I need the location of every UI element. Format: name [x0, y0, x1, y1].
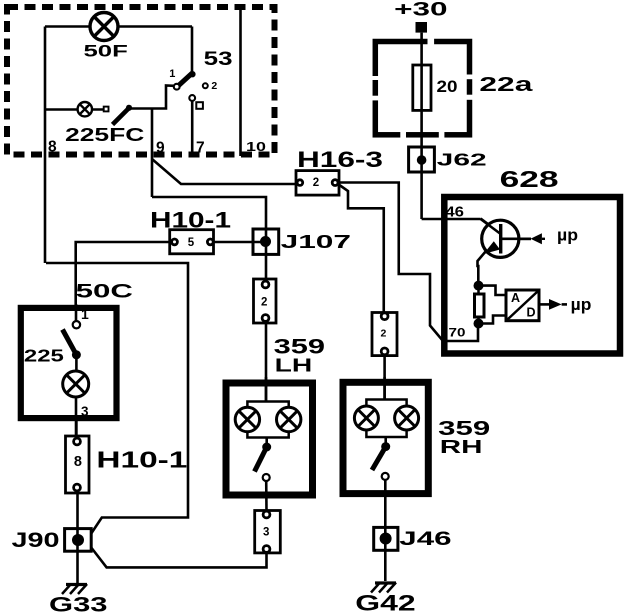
arrow to microprocessor (base) — [531, 233, 542, 244]
wire 359LH switch to conn3 — [265, 481, 268, 512]
connector pin3 (LH) box — [255, 511, 281, 553]
svg-text:3: 3 — [263, 527, 269, 539]
wire conn2RH to 359RH — [383, 356, 386, 400]
svg-text:225FC: 225FC — [65, 125, 144, 145]
wire 359LH entry — [265, 377, 268, 402]
transistor emitter arrow — [484, 241, 501, 254]
svg-text:9: 9 — [156, 140, 165, 157]
ground G42 — [371, 583, 396, 593]
unit box 628 — [444, 197, 620, 354]
lamp pair 359RH — [366, 400, 406, 438]
svg-text:3: 3 — [81, 404, 89, 419]
svg-text:J107: J107 — [281, 231, 351, 252]
wire 359RH switch through J46 to ground G42 — [384, 480, 387, 581]
contact 2 of 53 — [203, 83, 208, 88]
lamp 225FC — [78, 102, 92, 116]
svg-text:628: 628 — [500, 166, 559, 192]
contact 225FC — [104, 107, 109, 112]
wire transistor collector in — [481, 219, 500, 234]
fuse 20A symbol — [413, 65, 431, 110]
svg-text:µp: µp — [571, 295, 592, 314]
svg-text:µp: µp — [557, 226, 578, 245]
svg-text:50F: 50F — [84, 43, 128, 61]
lamp 50C — [63, 371, 89, 397]
wire 225FC row — [45, 108, 104, 111]
switch unit 50C box — [21, 308, 117, 418]
svg-text:G33: G33 — [49, 592, 108, 616]
svg-text:2: 2 — [313, 177, 319, 189]
wire transistor base out — [501, 238, 531, 241]
wire pin7 — [191, 101, 194, 157]
svg-text:D: D — [527, 306, 536, 320]
contact 7 of 53 — [189, 95, 195, 101]
switch 359LH — [265, 438, 268, 448]
wire pin9 to H16-3 — [152, 159, 296, 184]
lamp pair 359LH — [247, 402, 288, 438]
wire conn3 to J90 — [91, 548, 266, 568]
wire 53 switch feed — [191, 27, 194, 75]
switch 53 blade — [178, 73, 193, 87]
wire H10-1(8) through J90 to ground G33 — [76, 491, 79, 583]
svg-text:22a: 22a — [479, 73, 533, 96]
svg-text:53: 53 — [204, 49, 233, 70]
wire switch 225FC to 53 contact — [129, 86, 174, 109]
wire H10-1 to J107 — [213, 241, 266, 244]
svg-text:H10-1: H10-1 — [150, 208, 231, 233]
connector pin2 (RH) box — [372, 313, 397, 356]
connector pin2 (LH) box — [254, 279, 277, 323]
wire 50C switch to lamp — [75, 355, 78, 371]
contact 1 of 53 — [174, 84, 180, 90]
svg-text:20: 20 — [437, 78, 458, 96]
svg-text:G42: G42 — [355, 591, 415, 616]
resistor in 628 — [475, 294, 485, 317]
wire 50F row — [45, 25, 192, 28]
wire left vertical bus — [44, 27, 47, 264]
svg-text:5: 5 — [188, 237, 195, 249]
svg-text:8: 8 — [48, 139, 57, 156]
svg-text:1: 1 — [169, 68, 175, 80]
svg-text:225: 225 — [24, 345, 64, 365]
svg-text:J90: J90 — [12, 529, 60, 552]
wire conn2 to 359LH — [265, 322, 268, 402]
stub contact of 53 — [196, 102, 203, 109]
junction J46 box — [374, 527, 398, 550]
svg-text:7: 7 — [196, 140, 205, 157]
svg-text:+30: +30 — [394, 0, 447, 21]
svg-text:H10-1: H10-1 — [96, 447, 187, 473]
wire H16-3 to 628 pin70 — [338, 183, 478, 342]
svg-text:J46: J46 — [399, 528, 451, 550]
wire pin9 vertical — [151, 110, 154, 198]
wire H10-1 to 50C — [76, 242, 170, 305]
wire 50C lamp down to H10-1 — [75, 397, 78, 442]
junction J62 box — [409, 147, 435, 172]
switch blade 225FC — [113, 108, 130, 125]
svg-text:A: A — [511, 291, 520, 305]
svg-text:46: 46 — [445, 204, 464, 220]
transistor in 628 — [481, 219, 531, 257]
dashed unit box top-left — [7, 7, 275, 155]
switch 50C contact 1 — [73, 321, 80, 328]
battery feed +30 square — [416, 22, 428, 33]
svg-text:RH: RH — [440, 437, 483, 457]
wire 359RH entry — [383, 377, 386, 400]
wire J90 long loop to left bus — [46, 263, 188, 534]
lamp unit 359 RH box — [343, 382, 428, 493]
switch 50C blade — [63, 330, 77, 355]
svg-text:8: 8 — [74, 454, 82, 470]
svg-text:LH: LH — [275, 355, 313, 376]
junction J90 box — [65, 529, 92, 552]
connector H10-1 pin5 box — [170, 230, 214, 254]
lamp 50F — [90, 13, 118, 41]
svg-text:J62: J62 — [437, 149, 487, 169]
wire resistor top to A/D — [479, 286, 507, 295]
ground G33 — [62, 584, 87, 594]
wire pin9 through J107 to conn2 — [152, 197, 266, 281]
wire J62 to 628 pin46 — [422, 218, 481, 221]
junction J107 box — [253, 229, 279, 254]
wire 50C top — [75, 304, 78, 321]
svg-text:10: 10 — [246, 140, 266, 154]
A/D converter box — [506, 290, 539, 321]
connector H16-3 box — [296, 171, 339, 196]
arrow A/D to microprocessor — [549, 299, 562, 310]
wire pin10 — [239, 7, 242, 156]
wire +30 through fuse and J62 — [420, 33, 423, 219]
switch 359RH — [384, 437, 387, 447]
wire through resistor node — [477, 286, 480, 324]
svg-text:2: 2 — [381, 327, 387, 339]
svg-text:2: 2 — [211, 80, 217, 92]
wire resistor bottom to A/D — [479, 316, 507, 324]
wire A/D output — [539, 303, 550, 306]
svg-text:H16-3: H16-3 — [297, 147, 383, 172]
connector H10-1 pin8 box — [66, 436, 90, 493]
svg-text:1: 1 — [81, 306, 89, 322]
wire H16-3 to conn2 RH — [338, 184, 384, 313]
svg-text:2: 2 — [261, 297, 267, 309]
svg-text:70: 70 — [449, 326, 466, 340]
wire transistor emitter down — [478, 251, 487, 286]
junction dots at resistor — [474, 281, 484, 291]
wire 50C box to connector — [75, 421, 78, 438]
lamp unit 359 LH box — [226, 383, 313, 495]
fusebox 22a dashed — [375, 42, 469, 135]
svg-text:50C: 50C — [76, 282, 133, 303]
